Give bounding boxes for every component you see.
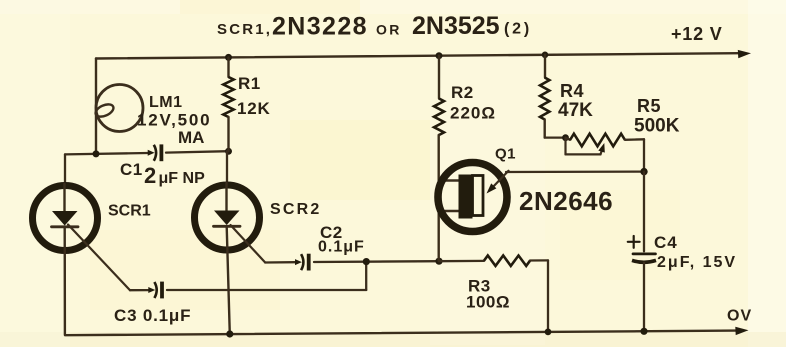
svg-text:100Ω: 100Ω (466, 293, 510, 312)
svg-text:12K: 12K (237, 99, 271, 118)
svg-text:2μF, 15V: 2μF, 15V (657, 254, 737, 271)
svg-text:47K: 47K (558, 100, 593, 121)
svg-text:SCR2: SCR2 (270, 201, 321, 218)
svg-text:12V,500: 12V,500 (137, 111, 211, 130)
svg-text:SCR1: SCR1 (108, 203, 151, 220)
svg-text:C3 0.1μF: C3 0.1μF (114, 306, 191, 325)
svg-text:R1: R1 (238, 74, 261, 93)
svg-text:C1: C1 (120, 160, 143, 179)
svg-text:R4: R4 (560, 81, 584, 101)
svg-text:Q1: Q1 (495, 146, 516, 163)
svg-text:C4: C4 (654, 233, 678, 252)
svg-text:2N2646: 2N2646 (519, 186, 613, 216)
svg-text:OR: OR (376, 22, 402, 38)
svg-text:500K: 500K (634, 116, 680, 137)
svg-text:2N3228: 2N3228 (272, 13, 368, 41)
svg-text:R5: R5 (637, 96, 661, 116)
svg-text:220Ω: 220Ω (450, 104, 496, 123)
svg-text:μF NP: μF NP (159, 170, 206, 187)
svg-text:+12 V: +12 V (671, 24, 723, 44)
svg-text:2N3525: 2N3525 (412, 12, 500, 40)
svg-text:OV: OV (727, 308, 752, 325)
svg-text:(2): (2) (504, 21, 532, 38)
svg-text:2: 2 (144, 163, 156, 188)
svg-text:SCR1,: SCR1, (217, 21, 272, 38)
svg-text:MA: MA (178, 128, 204, 147)
svg-text:LM1: LM1 (149, 94, 183, 111)
svg-text:R2: R2 (451, 83, 474, 102)
svg-text:0.1μF: 0.1μF (318, 239, 365, 256)
